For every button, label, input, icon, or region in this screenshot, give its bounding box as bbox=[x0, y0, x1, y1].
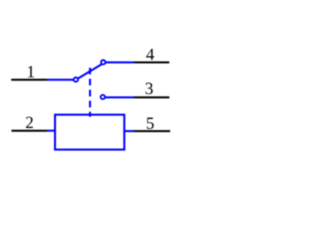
relay K1 common contact terminal bbox=[74, 77, 78, 81]
pin number 4 bbox=[146, 49, 154, 60]
pin number 2 bbox=[26, 117, 33, 128]
relay K1 switch armature bbox=[78, 64, 102, 79]
wire pin 5 lead bbox=[134, 130, 170, 132]
wire pin 1 lead bbox=[11, 79, 47, 81]
relay K1 pin 4 contact terminal bbox=[101, 60, 105, 64]
relay K1 coil body bbox=[55, 115, 124, 150]
pin number 5 bbox=[147, 118, 154, 129]
relay K1 pin 5 stub bbox=[124, 130, 134, 132]
pin number 3 bbox=[146, 83, 153, 94]
wire pin 4 lead bbox=[134, 61, 169, 63]
relay K1 pin 3 stub bbox=[105, 96, 134, 98]
wire pin 2 lead bbox=[12, 130, 48, 132]
relay K1 pin 2 stub bbox=[47, 130, 55, 132]
wire pin 3 lead bbox=[134, 96, 169, 98]
pin number 1 bbox=[28, 66, 34, 77]
relay K1 pin 1 stub bbox=[47, 79, 73, 81]
relay K1 pin 3 contact terminal bbox=[101, 95, 105, 99]
relay K1 actuation dashed link bbox=[89, 68, 91, 117]
relay K1 pin 4 stub bbox=[105, 61, 134, 63]
